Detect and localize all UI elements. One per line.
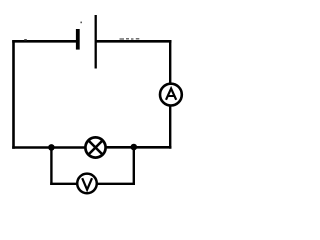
wire: voltmeter branch right vertical [133, 147, 135, 185]
wire: scan tick on top rail left [24, 39, 27, 41]
wire: scan speck near battery [80, 22, 82, 24]
wire: scan dashes above top rail right [120, 38, 140, 40]
wire: bottom rail right (lamp to right corner) [106, 146, 171, 149]
wire: left rail vertical [12, 40, 15, 149]
label A [166, 89, 176, 100]
wire: voltmeter row right [97, 183, 135, 185]
voltmeter V1 [77, 174, 97, 194]
node: right junction [131, 144, 138, 151]
ammeter A1 [160, 84, 182, 106]
wire: voltmeter row left [50, 183, 77, 185]
label V [82, 178, 92, 190]
wire: top rail right (battery to right corner) [97, 40, 172, 43]
wire: right rail upper (corner to ammeter) [169, 40, 171, 83]
battery cell: long plate [95, 15, 97, 69]
battery cell: short plate [76, 29, 80, 50]
wire: bottom rail left (left corner to lamp) [12, 146, 85, 149]
lamp L1 [85, 137, 105, 157]
node: left junction [48, 144, 55, 151]
wire: top rail left (corner to battery) [12, 40, 76, 43]
wire: right rail lower (ammeter to bottom corner) [169, 106, 171, 149]
wire: voltmeter branch left vertical [50, 147, 52, 185]
